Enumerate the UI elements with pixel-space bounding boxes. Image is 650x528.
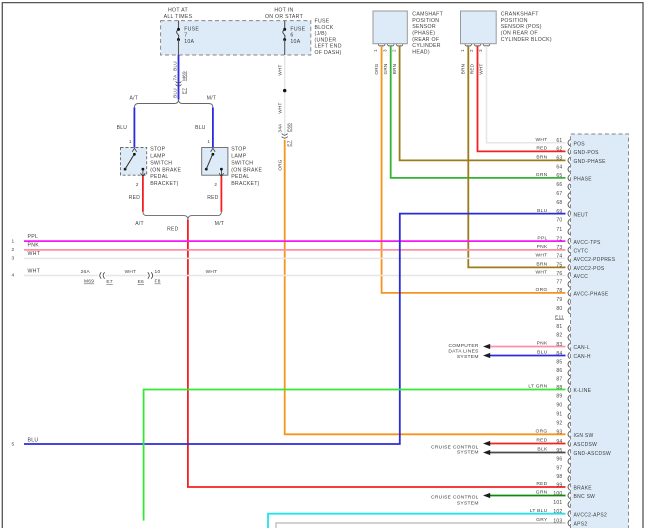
- svg-text:FUSE: FUSE: [315, 19, 330, 25]
- svg-text:RED: RED: [207, 195, 219, 201]
- wire PNK to pin 83 CAN-L: [487, 346, 566, 348]
- svg-text:(PHASE): (PHASE): [412, 30, 435, 36]
- svg-text:PNK: PNK: [28, 243, 40, 249]
- svg-text:WHT: WHT: [278, 102, 283, 113]
- svg-text:93: 93: [556, 430, 562, 436]
- svg-text:SYSTEM: SYSTEM: [457, 500, 479, 506]
- svg-text:GND-PHASE: GND-PHASE: [574, 159, 607, 165]
- svg-text:80: 80: [556, 306, 562, 312]
- svg-text:BRN: BRN: [536, 155, 547, 161]
- svg-text:91: 91: [556, 412, 562, 418]
- svg-text:34A: 34A: [278, 123, 283, 133]
- svg-text:POSITION: POSITION: [412, 18, 439, 24]
- svg-text:101: 101: [553, 500, 562, 506]
- svg-text:SENSOR (POS): SENSOR (POS): [501, 24, 542, 30]
- svg-text:1: 1: [207, 139, 210, 144]
- pin 61: [568, 140, 570, 146]
- svg-text:100: 100: [553, 491, 562, 497]
- fuse 6: [284, 21, 286, 30]
- svg-text:AVCC2-PDPRES: AVCC2-PDPRES: [574, 257, 616, 263]
- svg-text:89: 89: [556, 394, 562, 400]
- svg-text:CRUISE CONTROL: CRUISE CONTROL: [431, 444, 479, 450]
- svg-text:SWITCH: SWITCH: [150, 160, 172, 166]
- wire WHT crankshaft pin3 to pin 61 POS: [487, 46, 566, 143]
- svg-text:86: 86: [556, 368, 562, 374]
- wire BLK to pin 95 GND-ASCDSW: [487, 452, 566, 454]
- splitter bar top: [134, 100, 213, 108]
- svg-text:RED: RED: [536, 438, 547, 444]
- svg-text:A/T: A/T: [135, 221, 144, 227]
- pin 86: [568, 370, 570, 376]
- svg-text:GND-ASCDSW: GND-ASCDSW: [574, 451, 612, 457]
- svg-text:2: 2: [136, 182, 139, 187]
- svg-text:WHT: WHT: [536, 253, 548, 259]
- svg-text:26A: 26A: [81, 269, 91, 275]
- svg-text:2: 2: [12, 247, 15, 253]
- pin 98: [568, 476, 570, 482]
- svg-text:10A: 10A: [184, 39, 194, 45]
- svg-text:4: 4: [12, 273, 15, 279]
- svg-text:102: 102: [553, 509, 562, 515]
- svg-text:BLU: BLU: [173, 88, 178, 98]
- camshaft position sensor U1: [373, 11, 407, 44]
- wire BLU from fuse 7: [178, 55, 180, 100]
- svg-text:CRANKSHAFT: CRANKSHAFT: [501, 11, 540, 17]
- junction dot: [283, 89, 286, 92]
- fuse 7: [178, 21, 180, 30]
- pin 89: [568, 395, 570, 401]
- pin 97: [568, 467, 570, 473]
- svg-text:M/T: M/T: [207, 95, 216, 101]
- svg-text:E7: E7: [106, 279, 112, 285]
- svg-text:72: 72: [556, 236, 562, 242]
- wire RED crankshaft pin2 to pin 62 GND-POS: [478, 46, 566, 151]
- pin 78: [568, 290, 570, 296]
- svg-text:5: 5: [12, 441, 15, 447]
- pin 64: [568, 166, 570, 172]
- wire RED to pin 99 BRAKE: [188, 220, 566, 487]
- pin 96: [568, 458, 570, 464]
- svg-text:WHT: WHT: [278, 64, 283, 75]
- svg-text:AVCC-PHASE: AVCC-PHASE: [574, 292, 609, 298]
- svg-text:99: 99: [556, 482, 562, 488]
- svg-text:STOP: STOP: [150, 147, 165, 153]
- svg-text:ALL TIMES: ALL TIMES: [164, 14, 193, 20]
- svg-text:ASCDSW: ASCDSW: [574, 442, 598, 448]
- svg-text:71: 71: [556, 227, 562, 233]
- svg-text:7: 7: [184, 33, 187, 39]
- pin 84: [568, 352, 570, 358]
- wire WHT row 4 to pin 76 AVCC: [24, 275, 98, 277]
- svg-text:LEFT END: LEFT END: [315, 44, 342, 50]
- svg-text:RED: RED: [536, 146, 547, 152]
- fuse block J/B: [161, 21, 311, 55]
- svg-text:LAMP: LAMP: [231, 153, 247, 159]
- svg-text:RED: RED: [167, 227, 179, 233]
- svg-text:DATA LINES: DATA LINES: [448, 349, 479, 355]
- pin 81: [568, 325, 570, 331]
- svg-text:BLK: BLK: [537, 447, 548, 453]
- pin 85: [568, 361, 570, 367]
- svg-text:BLU: BLU: [195, 125, 206, 131]
- wire ORG camshaft pin1 to pin 78 AVCC-PHASE: [382, 46, 566, 293]
- svg-text:1: 1: [12, 238, 15, 244]
- pin 103: [568, 520, 570, 526]
- svg-text:SENSOR: SENSOR: [412, 24, 436, 30]
- svg-text:GRN: GRN: [536, 172, 548, 178]
- svg-text:E7: E7: [287, 140, 292, 146]
- svg-text:67: 67: [556, 191, 562, 197]
- svg-text:BLU: BLU: [537, 208, 548, 214]
- svg-text:BLU: BLU: [537, 350, 548, 356]
- svg-text:3: 3: [478, 49, 483, 52]
- svg-text:GRN: GRN: [383, 63, 388, 74]
- svg-text:GRN: GRN: [536, 490, 548, 496]
- svg-text:BRAKE: BRAKE: [574, 486, 593, 492]
- svg-text:PEDAL: PEDAL: [150, 174, 168, 180]
- svg-text:ORG: ORG: [536, 287, 548, 293]
- svg-text:ORG: ORG: [536, 429, 548, 435]
- svg-text:GRY: GRY: [536, 517, 548, 523]
- svg-text:LAMP: LAMP: [150, 153, 166, 159]
- svg-text:M/T: M/T: [215, 221, 224, 227]
- svg-text:10A: 10A: [290, 39, 300, 45]
- pin 83: [568, 343, 570, 349]
- svg-text:BLU: BLU: [173, 61, 178, 71]
- svg-text:1: 1: [129, 139, 132, 144]
- svg-text:CVTC: CVTC: [574, 249, 589, 255]
- wire BLU to A/T switch: [133, 108, 135, 148]
- wire BLU row 5 to pin 69 NEUT: [24, 214, 566, 444]
- svg-text:90: 90: [556, 403, 562, 409]
- svg-text:(J/B): (J/B): [315, 31, 327, 37]
- svg-text:LT GRN: LT GRN: [528, 384, 547, 390]
- svg-text:(ON BRAKE: (ON BRAKE: [150, 167, 181, 173]
- pin 73: [568, 247, 570, 253]
- pin 79: [568, 299, 570, 305]
- svg-text:WHT: WHT: [479, 63, 484, 74]
- svg-text:63: 63: [556, 156, 562, 162]
- wire GRN to pin 100 BNC SW: [487, 495, 566, 497]
- pin 88: [568, 386, 570, 392]
- svg-text:IGN SW: IGN SW: [574, 433, 594, 439]
- svg-text:87: 87: [556, 377, 562, 383]
- pin 62: [568, 148, 570, 154]
- svg-text:SYSTEM: SYSTEM: [457, 354, 479, 360]
- connector symbol E7/M69: [176, 82, 182, 84]
- svg-text:PHASE: PHASE: [574, 177, 593, 183]
- svg-text:ON OR START: ON OR START: [265, 14, 304, 20]
- svg-text:70: 70: [556, 218, 562, 224]
- pin 65: [568, 175, 570, 181]
- svg-text:LT BLU: LT BLU: [530, 508, 548, 514]
- svg-text:64: 64: [556, 165, 562, 171]
- svg-text:65: 65: [556, 173, 562, 179]
- pin 77: [568, 281, 570, 287]
- pin 69: [568, 211, 570, 217]
- svg-text:CRUISE CONTROL: CRUISE CONTROL: [431, 495, 479, 501]
- svg-text:OF DASH): OF DASH): [315, 50, 342, 56]
- svg-text:WHT: WHT: [125, 269, 137, 275]
- svg-text:F8: F8: [155, 279, 161, 285]
- svg-text:HOT IN: HOT IN: [274, 8, 293, 14]
- pin 71: [568, 229, 570, 235]
- stop lamp switch M/T: [202, 148, 228, 176]
- svg-text:M69: M69: [182, 71, 187, 81]
- svg-text:78: 78: [556, 288, 562, 294]
- svg-text:10: 10: [155, 269, 161, 275]
- svg-text:82: 82: [556, 333, 562, 339]
- svg-text:CAMSHAFT: CAMSHAFT: [412, 11, 443, 17]
- wire RED below M/T switch: [220, 177, 222, 212]
- svg-text:AVCC-TPS: AVCC-TPS: [574, 240, 602, 246]
- pin 92: [568, 422, 570, 428]
- connector symbol E68/E7: [282, 134, 288, 136]
- svg-text:(UNDER: (UNDER: [315, 37, 337, 43]
- svg-text:M69: M69: [84, 279, 94, 285]
- svg-text:POS: POS: [574, 142, 586, 148]
- pin 90: [568, 404, 570, 410]
- svg-text:AVCC: AVCC: [574, 274, 589, 280]
- pin 91: [568, 413, 570, 419]
- svg-text:WHT: WHT: [536, 270, 548, 276]
- pin 67: [568, 193, 570, 199]
- svg-text:62: 62: [556, 147, 562, 153]
- svg-text:7A: 7A: [173, 74, 178, 81]
- svg-text:2: 2: [391, 49, 396, 52]
- pin 80: [568, 308, 570, 314]
- svg-text:98: 98: [556, 474, 562, 480]
- svg-text:RED: RED: [129, 195, 141, 201]
- wire PNK row 2 to pin 73 CVTC: [24, 249, 566, 251]
- svg-text:92: 92: [556, 421, 562, 427]
- svg-text:PEDAL: PEDAL: [231, 174, 249, 180]
- wire BLU to M/T switch: [212, 108, 214, 148]
- wire GRN camshaft pin3 to pin 65 PHASE: [391, 46, 566, 178]
- pin 94: [568, 440, 570, 446]
- crankshaft position sensor U2: [461, 11, 497, 44]
- svg-text:6: 6: [290, 33, 293, 39]
- svg-text:BRN: BRN: [536, 262, 547, 268]
- svg-text:1: 1: [373, 49, 378, 52]
- joiner bar bottom: [143, 212, 222, 220]
- svg-text:WHT: WHT: [206, 269, 218, 275]
- svg-text:BLU: BLU: [28, 437, 39, 443]
- wire BLU to pin 84 CAN-H: [487, 355, 566, 357]
- svg-text:ORG: ORG: [278, 159, 283, 170]
- svg-text:(ON BRAKE: (ON BRAKE: [231, 167, 262, 173]
- pin 82: [568, 334, 570, 340]
- svg-text:WHT: WHT: [28, 268, 41, 274]
- pin 100: [568, 492, 570, 498]
- pin 70: [568, 219, 570, 225]
- svg-text:APS2: APS2: [574, 522, 588, 528]
- svg-text:WHT: WHT: [28, 251, 41, 257]
- svg-text:81: 81: [556, 324, 562, 330]
- svg-text:E7: E7: [182, 88, 187, 94]
- svg-text:E68: E68: [287, 123, 292, 132]
- svg-text:RED: RED: [470, 63, 475, 74]
- pin 102: [568, 511, 570, 517]
- pin 68: [568, 202, 570, 208]
- svg-text:3: 3: [382, 49, 387, 52]
- svg-text:94: 94: [556, 439, 562, 445]
- svg-text:STOP: STOP: [231, 147, 246, 153]
- stop lamp switch A/T: [121, 148, 147, 176]
- wire RED below A/T switch: [142, 177, 144, 212]
- pin 75: [568, 264, 570, 270]
- svg-text:BNC SW: BNC SW: [574, 494, 596, 500]
- svg-text:CAN-H: CAN-H: [574, 354, 591, 360]
- svg-text:BRACKET): BRACKET): [231, 181, 259, 187]
- svg-text:2: 2: [469, 49, 474, 52]
- wire LT BLU to pin 102 AVCC2-APS2: [268, 514, 566, 528]
- svg-text:POSITION: POSITION: [501, 18, 528, 24]
- svg-text:(ON REAR OF: (ON REAR OF: [501, 30, 538, 36]
- svg-text:77: 77: [556, 280, 562, 286]
- svg-text:PNK: PNK: [537, 341, 548, 347]
- wire LT GRN to pin 88 K-LINE: [144, 390, 566, 521]
- pin 101: [568, 501, 570, 507]
- svg-text:COMPUTER: COMPUTER: [448, 343, 478, 349]
- svg-text:97: 97: [556, 465, 562, 471]
- svg-text:HOT AT: HOT AT: [168, 8, 188, 14]
- svg-text:BRACKET): BRACKET): [150, 181, 178, 187]
- svg-text:CYLINDER: CYLINDER: [412, 43, 440, 49]
- svg-text:75: 75: [556, 263, 562, 269]
- svg-text:PNK: PNK: [537, 244, 548, 250]
- svg-text:E11: E11: [555, 314, 564, 320]
- pin 76: [568, 272, 570, 278]
- svg-text:BRN: BRN: [392, 64, 397, 75]
- svg-text:SWITCH: SWITCH: [231, 160, 253, 166]
- svg-text:K-LINE: K-LINE: [574, 388, 592, 394]
- svg-text:1: 1: [460, 49, 465, 52]
- svg-text:SYSTEM: SYSTEM: [457, 450, 479, 456]
- svg-text:85: 85: [556, 360, 562, 366]
- svg-text:ORG: ORG: [374, 63, 379, 74]
- svg-text:BLOCK: BLOCK: [315, 25, 334, 31]
- wire RED to pin 94 ASCDSW: [487, 443, 566, 445]
- svg-text:NEUT: NEUT: [574, 212, 589, 218]
- svg-text:96: 96: [556, 457, 562, 463]
- svg-text:95: 95: [556, 448, 562, 454]
- svg-text:2: 2: [214, 182, 217, 187]
- svg-text:BLU: BLU: [117, 125, 128, 131]
- svg-text:76: 76: [556, 271, 562, 277]
- svg-text:66: 66: [556, 182, 562, 188]
- svg-text:E6: E6: [138, 279, 144, 285]
- wire WHT from fuse 6: [284, 55, 286, 136]
- wire BRN camshaft pin2 to pin 63 GND-PHASE: [400, 46, 566, 160]
- svg-text:61: 61: [556, 138, 562, 144]
- svg-text:AVCC2-POS: AVCC2-POS: [574, 266, 605, 272]
- svg-text:(REAR OF: (REAR OF: [412, 37, 439, 43]
- wire GRY to pin 103 APS2: [276, 523, 566, 528]
- svg-text:A/T: A/T: [129, 95, 138, 101]
- wire ORG from fuse 6 to pin 93 IGN SW: [285, 140, 566, 435]
- pin 87: [568, 378, 570, 384]
- svg-text:WHT: WHT: [536, 137, 548, 143]
- pin 63: [568, 157, 570, 163]
- svg-text:83: 83: [556, 342, 562, 348]
- svg-text:PPL: PPL: [537, 235, 547, 241]
- svg-text:88: 88: [556, 385, 562, 391]
- svg-text:CYLINDER BLOCK): CYLINDER BLOCK): [501, 37, 552, 43]
- pin 99: [568, 484, 570, 490]
- pin 95: [568, 449, 570, 455]
- wire PPL row 1 to pin 72 AVCC-TPS: [24, 240, 566, 242]
- svg-text:74: 74: [556, 254, 562, 260]
- svg-text:3: 3: [12, 256, 15, 262]
- pin 93: [568, 431, 570, 437]
- svg-text:73: 73: [556, 245, 562, 251]
- svg-text:84: 84: [556, 351, 562, 357]
- pin 72: [568, 238, 570, 244]
- pin 74: [568, 255, 570, 261]
- ECM connector box: [571, 134, 629, 528]
- svg-text:PPL: PPL: [28, 234, 39, 240]
- svg-text:AVCC2-APS2: AVCC2-APS2: [574, 512, 608, 518]
- svg-text:RED: RED: [536, 481, 547, 487]
- svg-text:103: 103: [553, 518, 562, 524]
- svg-text:CAN-L: CAN-L: [574, 345, 590, 351]
- svg-text:68: 68: [556, 200, 562, 206]
- svg-text:HEAD): HEAD): [412, 50, 430, 56]
- wire WHT row 3 to pin 74 AVCC2-PDPRES: [24, 257, 566, 259]
- svg-text:69: 69: [556, 209, 562, 215]
- pin 66: [568, 184, 570, 190]
- svg-text:GND-POS: GND-POS: [574, 150, 600, 156]
- svg-text:79: 79: [556, 297, 562, 303]
- svg-text:BRN: BRN: [461, 64, 466, 75]
- wire BRN crankshaft pin1 to pin 75 AVCC2-POS: [468, 46, 565, 267]
